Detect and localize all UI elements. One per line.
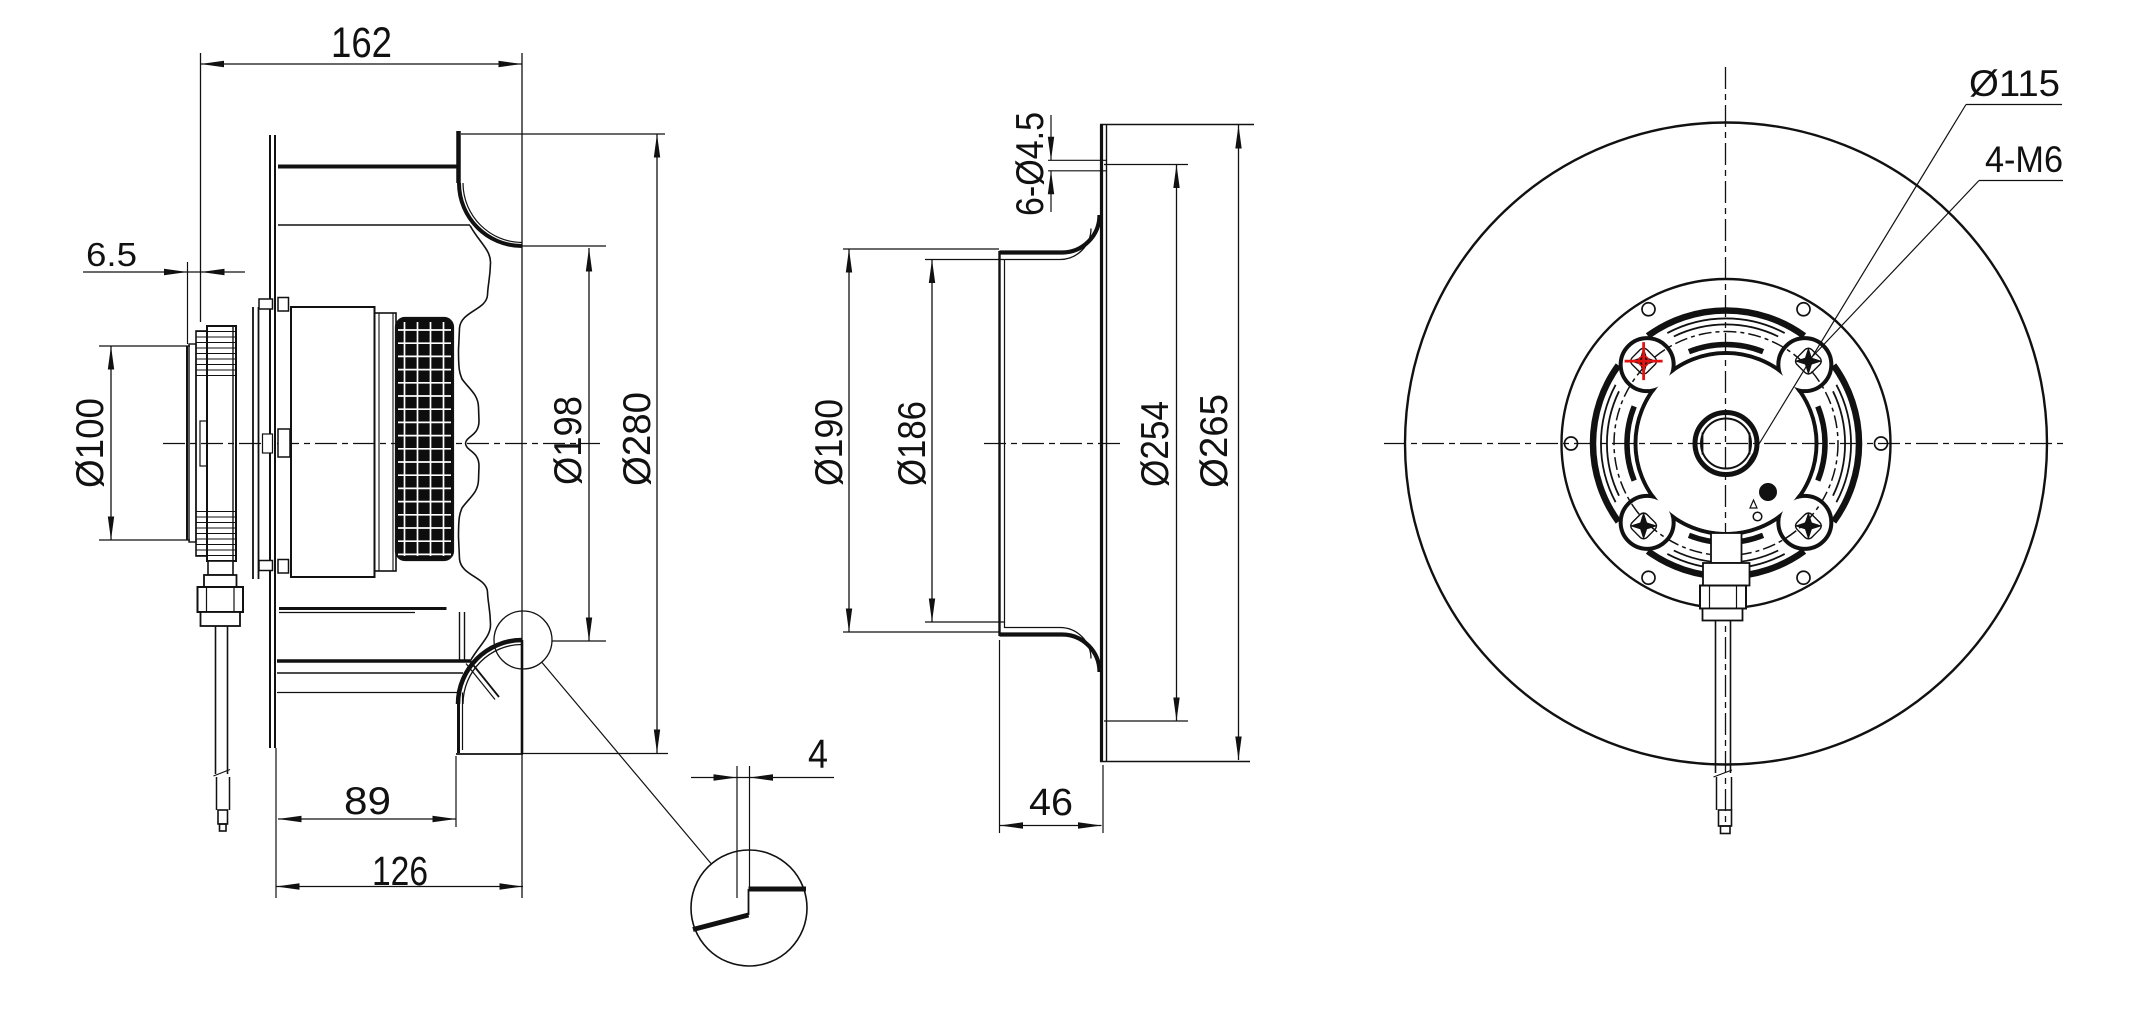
svg-text:Ø190: Ø190 — [808, 399, 851, 486]
svg-text:89: 89 — [344, 780, 391, 823]
svg-text:Ø198: Ø198 — [547, 396, 590, 485]
svg-text:126: 126 — [372, 848, 428, 894]
svg-text:162: 162 — [331, 19, 392, 67]
svg-text:6-Ø4.5: 6-Ø4.5 — [1009, 112, 1052, 216]
svg-text:4-M6: 4-M6 — [1985, 139, 2063, 180]
svg-text:Ø254: Ø254 — [1134, 401, 1177, 487]
svg-text:Ø265: Ø265 — [1193, 394, 1236, 488]
svg-text:4: 4 — [808, 731, 828, 777]
svg-text:Ø280: Ø280 — [616, 392, 659, 486]
svg-text:Ø115: Ø115 — [1969, 63, 2060, 104]
svg-text:46: 46 — [1029, 782, 1073, 824]
svg-text:Ø100: Ø100 — [69, 398, 112, 488]
svg-text:6.5: 6.5 — [86, 236, 137, 273]
svg-text:Ø186: Ø186 — [891, 401, 934, 486]
